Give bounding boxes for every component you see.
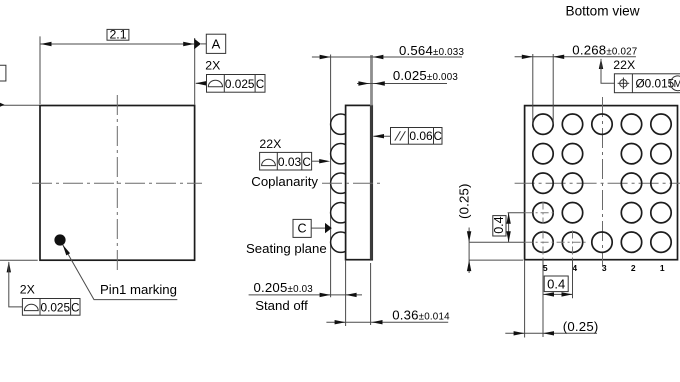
svg-text:(0.25): (0.25) — [456, 183, 471, 219]
svg-text:Seating plane: Seating plane — [246, 241, 327, 256]
svg-text:2X: 2X — [20, 283, 35, 297]
svg-text:22X: 22X — [613, 58, 635, 72]
extension line col4 down — [572, 260, 574, 299]
svg-text:M: M — [674, 79, 680, 90]
extension lines 0.268 ball diameter — [533, 54, 553, 125]
package outline top view — [40, 106, 195, 261]
package body side view — [346, 105, 373, 259]
crosshair ball col5 row5 — [469, 231, 587, 260]
vertical centerline top view — [116, 95, 118, 272]
horizontal centerline bottom view — [515, 182, 680, 184]
position feature control frame 0.015 M — [599, 58, 680, 92]
svg-text:C: C — [297, 221, 306, 235]
row5 extension line left — [469, 259, 523, 261]
vertical centerline bottom view — [602, 97, 604, 267]
svg-text:C: C — [303, 157, 311, 169]
ball grid bottom view row3 — [533, 173, 671, 193]
crosshair ball col4 row5 — [572, 231, 574, 260]
svg-text:C: C — [256, 79, 264, 91]
svg-text:0.025: 0.025 — [225, 77, 255, 91]
svg-text:1: 1 — [660, 263, 665, 273]
dimension (0.25) left vertical — [456, 183, 471, 273]
solder balls side view — [331, 114, 351, 252]
svg-text:2X: 2X — [205, 59, 220, 73]
svg-text:Bottom view: Bottom view — [566, 4, 640, 19]
svg-text:4: 4 — [572, 263, 577, 273]
datum A — [194, 34, 226, 53]
datum C seating plane — [293, 219, 332, 237]
svg-text:0.06: 0.06 — [409, 129, 433, 143]
feature control frame profile 0.025 C bottom-left — [22, 299, 80, 316]
svg-text:0.025: 0.025 — [41, 301, 71, 315]
dimension 0.564 — [312, 43, 465, 59]
svg-text:0.4: 0.4 — [547, 276, 565, 291]
svg-text:Pin1 marking: Pin1 marking — [100, 282, 177, 297]
pin1 leader — [63, 245, 178, 300]
pin1 marking dot — [54, 234, 65, 245]
horizontal centerline top view — [32, 182, 202, 184]
ball grid bottom view row2 — [533, 144, 671, 164]
label 2X bottom-left — [20, 283, 35, 297]
svg-text:(0.25): (0.25) — [563, 319, 599, 334]
leader for bottom-left feature control frame — [7, 261, 23, 307]
crosshair ball col5 row4 — [508, 202, 555, 225]
extension lines for 0.025 layer above — [370, 55, 373, 105]
svg-text:0.4: 0.4 — [492, 216, 506, 233]
svg-text:3: 3 — [602, 263, 607, 273]
svg-text:C: C — [434, 131, 442, 143]
label 22X bottom view — [613, 58, 635, 72]
dimension 0.4 left vertical — [492, 213, 511, 243]
extension line package left edge down — [524, 260, 526, 338]
ball grid bottom view row5 — [533, 232, 671, 252]
extension line right for dim 2.1 — [194, 38, 196, 105]
label Seating plane — [246, 241, 327, 256]
dimension 0.268 — [515, 43, 638, 60]
coplanarity feature control frame 0.03 C — [260, 152, 331, 170]
dimension 0.36 — [326, 308, 450, 325]
datum box fragment at left edge — [0, 65, 6, 81]
feature control frame profile 0.025 C top — [195, 75, 265, 93]
svg-text:2: 2 — [631, 263, 636, 273]
svg-text:A: A — [212, 37, 221, 52]
label 22X side view — [259, 137, 281, 151]
thick coating layer side view right edge — [370, 105, 373, 259]
ball extent extension line side view — [330, 55, 332, 298]
dimension 2.1 — [41, 27, 195, 46]
bottom edge extension line left — [0, 259, 38, 261]
extension line col5 down — [542, 260, 544, 337]
label Coplanarity — [251, 174, 318, 189]
top edge extension line left — [0, 103, 40, 107]
svg-text:2.1: 2.1 — [109, 27, 126, 41]
svg-text:22X: 22X — [259, 137, 281, 151]
svg-text:Stand off: Stand off — [255, 298, 308, 313]
title Bottom view — [566, 4, 640, 19]
svg-text:0.03: 0.03 — [278, 155, 302, 169]
svg-text:C: C — [71, 303, 79, 315]
label 2X top — [205, 59, 220, 73]
dimension 0.205 stand off — [249, 280, 362, 313]
ball column labels — [543, 263, 665, 273]
svg-text:Coplanarity: Coplanarity — [251, 174, 318, 189]
dimension 0.025 — [357, 68, 458, 86]
ball grid bottom view row1 — [533, 114, 671, 134]
dimension 0.4 bottom — [543, 276, 573, 297]
ball grid bottom view row4 — [533, 203, 671, 223]
parallelism feature control frame 0.06 C — [373, 128, 442, 145]
dimension (0.25) bottom — [505, 319, 598, 336]
svg-text:5: 5 — [543, 263, 548, 273]
extension line left for dim 2.1 — [39, 36, 41, 104]
package outline bottom view — [525, 106, 678, 260]
svg-text:Ø0.015: Ø0.015 — [636, 77, 675, 91]
label Pin1 marking — [100, 282, 177, 297]
horizontal centerline side view — [322, 182, 382, 184]
extension lines below side view — [346, 260, 371, 326]
